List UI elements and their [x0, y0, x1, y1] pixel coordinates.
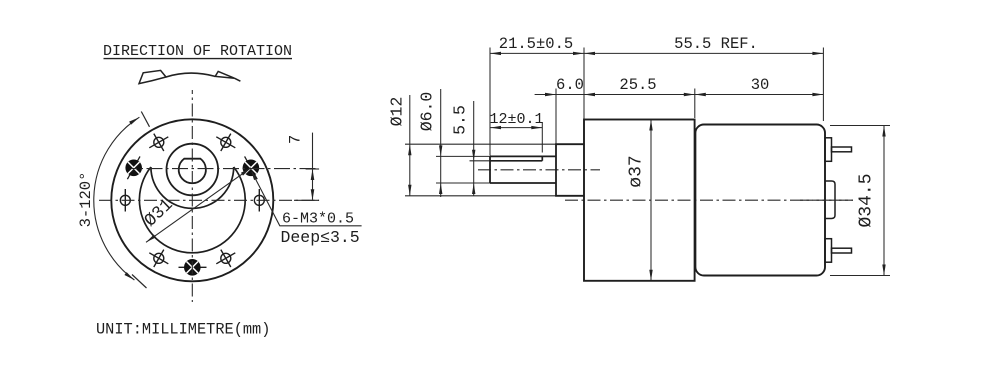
outer circle (gearbox body) [111, 119, 273, 281]
vertical centerline [191, 90, 193, 302]
7 dim extension tick [306, 168, 320, 170]
dia12 arrow down [408, 185, 411, 196]
svg-text:7: 7 [287, 135, 305, 144]
7 dim down arrowhead [311, 189, 315, 200]
extension line flat end vertical [541, 123, 543, 153]
label 30 [751, 76, 770, 94]
title DIRECTION OF ROTATION [103, 43, 292, 60]
unit note [96, 321, 270, 339]
label dia34.5 [857, 173, 877, 227]
extension line boss top horizontal [405, 143, 556, 145]
svg-text:Ø12: Ø12 [388, 97, 407, 127]
crossed screw hole upper-right [243, 156, 260, 179]
shaft tip face [489, 156, 491, 183]
arrow 12 right [531, 126, 542, 129]
arrow 6.0 [545, 93, 556, 96]
label dia12 [388, 97, 407, 127]
dia31 upper arrowhead [241, 168, 251, 176]
120deg arc top tick [141, 112, 149, 127]
7 dim up arrowhead [311, 169, 315, 180]
svg-text:6-M3*0.5: 6-M3*0.5 [282, 211, 354, 228]
7 label [287, 135, 305, 144]
main centerline [565, 199, 853, 201]
extension line shaft tip vertical [489, 48, 491, 156]
6-M3 leader arrowhead [251, 171, 257, 181]
arrow 21.5 right [573, 52, 584, 55]
arrow 25.5 right [684, 93, 695, 96]
shaft top line [490, 155, 556, 157]
svg-text:Ø34.5: Ø34.5 [857, 173, 877, 227]
dim line 21.5 and 55.5 [490, 52, 823, 54]
label dia37 [627, 155, 647, 187]
label 55.5 REF [674, 35, 758, 53]
dia6 dim line [440, 89, 442, 197]
shaft centerline [478, 169, 600, 171]
svg-text:21.5±0.5: 21.5±0.5 [499, 35, 573, 53]
120deg arc bottom arrowhead [124, 272, 134, 280]
dia34.5 arrow down [882, 265, 885, 276]
extension line shaft bottom horizontal [436, 182, 490, 184]
gearbox body [584, 120, 695, 281]
svg-text:25.5: 25.5 [619, 76, 656, 94]
dia37 dim line [650, 120, 652, 281]
shaft flat riser [541, 156, 543, 160]
dia34.5 dim line [883, 126, 885, 276]
5.5 dim line [473, 101, 475, 196]
LEFT-VIEW [77, 43, 362, 339]
svg-text:5.5: 5.5 [451, 105, 470, 135]
7 dim bottom solid segment [294, 199, 319, 201]
shaft D-circle with flat [179, 159, 206, 184]
boss circle [167, 144, 219, 196]
RIGHT-VIEW [388, 35, 891, 281]
crossed screw hole bottom [179, 259, 207, 276]
extension line flat chord horizontal [470, 160, 491, 162]
extension line boss bottom horizontal [405, 195, 556, 197]
svg-text:30: 30 [751, 76, 770, 94]
label 5.5 [451, 105, 470, 135]
svg-text:12±0.1: 12±0.1 [489, 111, 543, 128]
motor body [695, 125, 825, 276]
dia31 label [141, 195, 178, 231]
plain hole 240deg [149, 134, 168, 151]
svg-text:55.5 REF.: 55.5 REF. [674, 35, 758, 53]
dia6 arrow top (outside) [439, 145, 442, 156]
dia34.5 ext bottom [830, 275, 890, 277]
svg-text:UNIT:MILLIMETRE(mm): UNIT:MILLIMETRE(mm) [96, 321, 270, 339]
extension line shaft top horizontal [436, 155, 490, 157]
dia37 arrow down [649, 270, 652, 281]
title underline [104, 58, 293, 60]
dia12 dim line [409, 95, 411, 196]
svg-text:ø37: ø37 [627, 155, 647, 187]
shaft flat chord [490, 160, 542, 162]
rotation arrow arc [166, 73, 215, 77]
plain hole 60deg [216, 250, 235, 267]
plain hole 180deg [120, 189, 130, 212]
120deg arc top arrowhead [129, 117, 139, 124]
dia34.5 ext top [830, 125, 890, 127]
arrow 55.5 right [812, 52, 823, 55]
dia12 arrow up [408, 144, 411, 155]
svg-text:DIRECTION OF ROTATION: DIRECTION OF ROTATION [103, 43, 292, 60]
dia31 dimension line [146, 168, 251, 243]
7 dimension line [312, 133, 314, 200]
arrow 25.5 left [584, 93, 595, 96]
rotation arrow right tail [234, 78, 240, 81]
plain hole 120deg [149, 250, 168, 267]
centerline over bump [800, 199, 853, 201]
svg-text:6.0: 6.0 [556, 76, 584, 94]
6-M3 label line1 [282, 211, 354, 228]
dim line 12+-0.1 [490, 127, 542, 129]
5.5 arrow top (outside) [472, 150, 475, 161]
arrow 30 left [695, 93, 706, 96]
crescent scoop arc [151, 167, 234, 208]
terminal bottom pin [832, 248, 852, 253]
shaft bottom line [490, 182, 556, 184]
rotation arrow left head [139, 70, 166, 83]
120deg dimension arc [94, 117, 140, 280]
6-M3 label line2 [281, 228, 360, 247]
label 6.0 [556, 76, 584, 94]
extension line gearbox rear vertical [694, 89, 696, 119]
3-120 label [77, 172, 95, 228]
120deg arc bottom tick [132, 275, 147, 289]
arrow 30 right [812, 93, 823, 96]
brush cap bump [825, 181, 835, 219]
terminal top pin [832, 147, 852, 152]
svg-text:3-120°: 3-120° [77, 172, 95, 228]
label dia6.0 [418, 92, 437, 132]
shaft horizontal centerline [131, 168, 319, 170]
plain hole 300deg [216, 134, 235, 151]
arrow 12 left [490, 126, 501, 129]
flange circle [139, 167, 245, 253]
arrow 21.5 left [490, 52, 501, 55]
terminal top base [825, 138, 832, 162]
terminal bottom base [825, 239, 832, 263]
label 12+-0.1 [489, 111, 543, 128]
extension line gearbox front vertical [583, 48, 585, 120]
label 25.5 [619, 76, 656, 94]
dia6 arrow bottom (outside) [439, 183, 442, 194]
6-M3 leader line [252, 172, 362, 226]
extension line boss front vertical [555, 89, 557, 144]
rotation arrow right head [215, 71, 234, 78]
main horizontal centerline [99, 199, 319, 201]
boss [556, 144, 584, 196]
arrow 55.5 left [584, 52, 595, 55]
5.5 arrow bottom (outside) [472, 183, 475, 194]
crossed screw hole upper-left [125, 156, 142, 179]
dim line row2 [535, 94, 824, 96]
svg-text:Deep≤3.5: Deep≤3.5 [281, 228, 360, 247]
dia37 arrow up [649, 120, 652, 131]
plain hole 0deg [254, 189, 264, 212]
dia31 lower arrowhead [146, 235, 156, 243]
svg-text:Ø6.0: Ø6.0 [418, 92, 437, 132]
dia34.5 arrow up [882, 126, 885, 137]
label 21.5 [499, 35, 573, 53]
extension line motor rear vertical [822, 48, 824, 122]
